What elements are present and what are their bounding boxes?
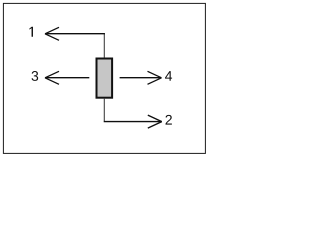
pin 2 wire bbox=[103, 99, 105, 121]
pin 1 wire bbox=[103, 33, 105, 58]
pin label 2 bbox=[166, 115, 172, 125]
pin 1 arrowhead bbox=[45, 27, 59, 40]
pin label 1 bbox=[29, 27, 33, 37]
pin 4 arrowhead bbox=[148, 71, 162, 84]
pin 2 arrowhead bbox=[148, 115, 162, 128]
pin label 4 bbox=[165, 71, 172, 81]
pin 3 arrowhead bbox=[45, 71, 59, 84]
pin label 3 bbox=[32, 71, 39, 81]
pin 4 wire bbox=[120, 77, 162, 79]
pin 3 wire bbox=[45, 77, 89, 79]
pin 2 wire horizontal bbox=[104, 121, 162, 123]
border frame bbox=[3, 3, 205, 153]
component body U1 bbox=[97, 59, 113, 98]
